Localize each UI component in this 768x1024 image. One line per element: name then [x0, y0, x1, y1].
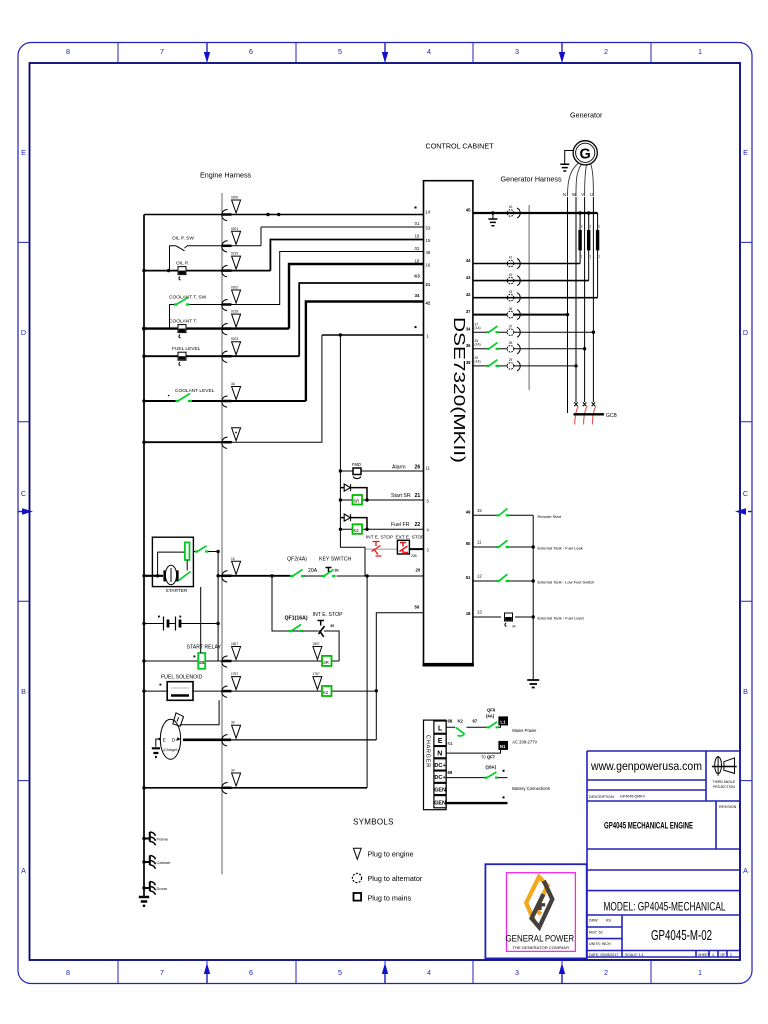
svg-text:CHARGER: CHARGER: [425, 735, 431, 768]
svg-text:15: 15: [426, 238, 431, 243]
generator G: [573, 141, 597, 165]
relay coil START RELAY (green box): [142, 587, 339, 669]
ground bottom of bus: [139, 897, 149, 906]
svg-text:1: 1: [712, 953, 714, 957]
svg-text:V: V: [581, 192, 584, 197]
top band dividers: [118, 43, 651, 63]
svg-text:37: 37: [509, 324, 513, 328]
svg-text:POWER: POWER: [545, 934, 574, 944]
svg-text:GP4045-M-02: GP4045-M-02: [651, 928, 712, 944]
centering arrows sides: [18, 508, 752, 514]
svg-text:Alarm: Alarm: [392, 465, 406, 471]
svg-text:DSE7320(MKII): DSE7320(MKII): [450, 317, 467, 463]
plug to alternator pin43: [507, 276, 520, 286]
svg-text:40: 40: [509, 205, 513, 209]
switch INT E. STOP (red): [365, 542, 397, 557]
wire vertical bus from pin1 wire: [340, 335, 365, 576]
svg-text:THE GENERATOR COMPANY: THE GENERATOR COMPANY: [513, 946, 571, 950]
sender OIL P.: [142, 267, 270, 280]
svg-text:1: 1: [589, 255, 591, 259]
plug to alternator pin44: [507, 259, 520, 269]
svg-text:42: 42: [509, 273, 513, 277]
sender external fuel level: [505, 613, 516, 629]
svg-text:01: 01: [415, 221, 420, 226]
wire QF1 branch: [272, 576, 316, 631]
svg-text:RU: RU: [606, 919, 612, 923]
svg-text:Generator Harness: Generator Harness: [501, 175, 563, 184]
battery: [142, 616, 218, 631]
wire pin 34 to U: [473, 323, 595, 334]
wire pin 18 fuel level: [473, 610, 535, 619]
svg-text:DRW:: DRW:: [589, 919, 598, 923]
svg-text:A: A: [21, 866, 26, 875]
svg-text:External Tank - Fuel Leak: External Tank - Fuel Leak: [538, 546, 583, 551]
switch COOLANT LEVEL (green): [142, 394, 306, 403]
svg-text:7: 7: [160, 968, 164, 977]
wire engine harness boundary line: [221, 193, 223, 874]
relay coil SR on start relay row: [322, 656, 332, 666]
svg-text:28: 28: [509, 341, 513, 345]
wire A row to bus: [144, 787, 367, 789]
svg-text:GEN: GEN: [434, 788, 446, 794]
CT L3: [598, 213, 601, 298]
svg-text:SYMBOLS: SYMBOLS: [353, 818, 394, 827]
svg-text:(4A): (4A): [486, 714, 495, 719]
wire row1 to pin 14: [144, 214, 424, 216]
wire right bus: [532, 515, 534, 679]
charger (engine alternator): [157, 700, 219, 759]
ground pin 45: [488, 211, 497, 226]
svg-text:67: 67: [473, 719, 478, 724]
plug to alternator pin45: [507, 208, 520, 218]
wire pin 37 to N: [473, 314, 568, 316]
wire pin 45: [473, 212, 598, 214]
switch COOLANT T. SW (green): [170, 298, 193, 329]
svg-text:43: 43: [466, 275, 471, 280]
svg-text:42: 42: [426, 301, 431, 306]
svg-text:C: C: [743, 489, 748, 498]
svg-text:42: 42: [466, 292, 471, 297]
plug to engine starter row: [222, 557, 241, 582]
breaker 34 (green): [487, 326, 500, 333]
battery charger box: [424, 720, 447, 810]
wire phase V: [584, 197, 586, 402]
starter box: [152, 537, 193, 586]
svg-text:1: 1: [698, 47, 702, 56]
pin numbers right edge: [466, 208, 471, 617]
diode D1: [340, 484, 367, 500]
wire generator harness boundary line: [528, 205, 530, 390]
svg-text:External Tank - Fuel Level: External Tank - Fuel Level: [538, 616, 584, 621]
plug to engine fuel solenoid row 2: [313, 672, 322, 690]
svg-text:16: 16: [231, 557, 235, 561]
svg-text:B: B: [21, 687, 26, 696]
svg-text:K2: K2: [354, 528, 360, 533]
plug circle labels: [509, 205, 513, 362]
svg-text:19: 19: [415, 234, 420, 239]
wire starter row: [142, 574, 163, 577]
svg-text:30: 30: [231, 769, 235, 773]
svg-text:2: 2: [730, 953, 732, 957]
svg-text:45: 45: [466, 208, 471, 213]
svg-text:20A: 20A: [308, 568, 318, 574]
svg-text:QF6: QF6: [487, 708, 496, 713]
terminal cells: [434, 721, 447, 808]
wire coolant level to pin (riser): [306, 302, 424, 402]
svg-text:COOLANT T.: COOLANT T.: [169, 319, 197, 325]
svg-text:SR: SR: [354, 499, 360, 504]
relay coil SR: [340, 495, 423, 505]
svg-text:Mains Power: Mains Power: [512, 728, 537, 733]
plug to alternator pin34: [507, 327, 520, 337]
svg-text:1807: 1807: [313, 642, 320, 646]
svg-text:4: 4: [427, 47, 431, 56]
svg-text:2N: 2N: [335, 569, 340, 573]
fuse QF2 (green): [290, 570, 322, 577]
relay coil K2 on fuel solenoid row: [322, 686, 332, 696]
wire fuel level to pin (riser): [299, 283, 423, 356]
svg-text:External Tank - Low Fuel Switc: External Tank - Low Fuel Switch: [538, 580, 595, 585]
svg-text:3: 3: [515, 968, 519, 977]
svg-text:2: 2: [589, 225, 591, 229]
svg-text:2: 2: [604, 968, 608, 977]
plug to engine start relay row 2: [313, 642, 322, 660]
svg-text:0203: 0203: [231, 337, 238, 341]
contact K2 mains (green): [456, 719, 478, 737]
wire pin 50 fuel leak: [473, 540, 535, 549]
wire A vertical (key sw junction down): [366, 576, 368, 788]
fuse QF6 (4A) green: [486, 708, 499, 729]
plug to alternator pin38: [507, 361, 520, 371]
svg-text:2: 2: [581, 225, 583, 229]
svg-text:48: 48: [426, 250, 431, 255]
flag on charger: [173, 713, 184, 726]
legend plug to alternator: [352, 873, 422, 883]
svg-text:QF2(4A): QF2(4A): [287, 557, 307, 563]
svg-text:11: 11: [477, 540, 482, 545]
svg-text:34: 34: [466, 327, 471, 332]
svg-text:U: U: [590, 192, 593, 197]
switch fuel leak (green): [497, 540, 510, 548]
pin numbers left edge: [415, 210, 431, 610]
svg-text:(1A): (1A): [475, 343, 481, 347]
svg-text:16: 16: [426, 263, 431, 268]
svg-text:41: 41: [509, 256, 513, 260]
svg-text:59: 59: [415, 605, 420, 610]
switch EXT E. STOP (red, boxed): [397, 540, 423, 558]
svg-text:26: 26: [415, 465, 421, 471]
svg-text:D: D: [743, 328, 748, 337]
svg-text:20: 20: [416, 568, 421, 573]
breaker 36 (green): [487, 343, 500, 350]
svg-text:A: A: [743, 866, 748, 875]
wire pin 44: [473, 263, 580, 265]
svg-text:5: 5: [338, 47, 342, 56]
wire pin 42: [473, 297, 598, 299]
wire DC+ row: [446, 770, 507, 778]
svg-text:36: 36: [466, 343, 471, 348]
breaker 38 (green): [487, 360, 500, 367]
CT L2: [589, 213, 592, 281]
wire coolant t. to pin 16 (riser): [289, 264, 424, 329]
svg-text:GP4045-QMKII: GP4045-QMKII: [620, 795, 645, 799]
svg-text:Fuel FR: Fuel FR: [391, 522, 410, 528]
svg-text:E: E: [163, 737, 166, 742]
svg-text:22: 22: [415, 522, 421, 528]
svg-text:GP4045 MECHANICAL ENGINE: GP4045 MECHANICAL ENGINE: [604, 821, 693, 832]
wire coolant t. sw to pin 48: [192, 252, 424, 305]
switch starter aux (green): [193, 546, 219, 553]
switch OIL P. SW: [170, 246, 188, 271]
svg-text:7: 7: [160, 47, 164, 56]
svg-text:0218: 0218: [231, 310, 238, 314]
svg-text:20B: 20B: [411, 554, 417, 558]
svg-text:1757: 1757: [313, 672, 320, 676]
svg-text:N: N: [563, 192, 566, 197]
legend plug to mains: [354, 893, 412, 903]
right band dividers: [740, 242, 752, 780]
svg-text:K3: K3: [414, 274, 420, 279]
svg-text:Plug to engine: Plug to engine: [368, 850, 414, 859]
svg-text:4: 4: [427, 968, 431, 977]
svg-text:21: 21: [415, 493, 421, 499]
svg-text:13: 13: [477, 610, 482, 615]
svg-text:1: 1: [581, 255, 583, 259]
svg-text:C: C: [21, 489, 26, 498]
svg-text:12: 12: [477, 574, 482, 579]
svg-text:38: 38: [466, 360, 471, 365]
svg-text:Remote Start: Remote Start: [538, 514, 562, 519]
logo GP diamond dark part: [532, 881, 553, 928]
fuse QF1 (green): [289, 625, 319, 632]
svg-text:K2: K2: [323, 690, 329, 695]
svg-text:B: B: [743, 687, 748, 696]
svg-text:11: 11: [426, 466, 431, 471]
svg-text:34: 34: [415, 293, 420, 298]
svg-text:E: E: [743, 148, 748, 157]
svg-text:SS: SS: [199, 660, 205, 665]
svg-text:3: 3: [515, 47, 519, 56]
svg-text:W: W: [572, 192, 576, 197]
svg-text:Plug to mains: Plug to mains: [368, 894, 412, 903]
svg-text:6: 6: [249, 968, 253, 977]
centering arrows bottom: [204, 963, 565, 983]
svg-text:D+: D+: [172, 737, 178, 742]
svg-text:MODEL: GP4045-MECHANICAL: MODEL: GP4045-MECHANICAL: [604, 900, 726, 914]
svg-text:2: 2: [598, 225, 600, 229]
wire mains N row: [446, 741, 500, 753]
svg-text:MGT: 52: MGT: 52: [589, 931, 603, 935]
plug to engine row5: [222, 310, 241, 335]
svg-text:8: 8: [66, 968, 70, 977]
svg-text:(16A): (16A): [486, 765, 497, 770]
svg-text:Start SR: Start SR: [391, 493, 411, 499]
svg-text:SHEET: SHEET: [698, 953, 711, 957]
svg-text:Cabinet: Cabinet: [157, 860, 172, 865]
svg-text:6: 6: [249, 47, 253, 56]
svg-text:EXT E. STOP: EXT E. STOP: [396, 535, 425, 540]
wire pin 36 to V: [473, 339, 586, 350]
svg-text:STARTER: STARTER: [166, 588, 188, 594]
svg-text:34: 34: [512, 625, 516, 629]
motor starter: [165, 565, 178, 584]
switch remote start (green): [497, 509, 510, 517]
svg-text:02: 02: [415, 246, 420, 251]
svg-text:Doors: Doors: [157, 886, 168, 891]
svg-text:PROJECTION: PROJECTION: [713, 785, 735, 789]
wire starter row to key switch: [218, 575, 290, 577]
CT L1: [580, 213, 583, 264]
svg-text:DATE: 09/28/2017: DATE: 09/28/2017: [589, 953, 618, 957]
grounds frame cabinet doors: [142, 832, 171, 895]
wire pin 43: [473, 280, 589, 282]
svg-text:SCALE: 1:1: SCALE: 1:1: [625, 953, 644, 957]
svg-text:GENERAL: GENERAL: [506, 934, 544, 944]
svg-text:DC+: DC+: [434, 775, 446, 781]
svg-text:D: D: [21, 328, 26, 337]
svg-text:L: L: [438, 726, 443, 733]
centering arrows top: [204, 43, 565, 63]
wire starter vertical: [217, 552, 219, 662]
bottom numbers: [66, 968, 702, 977]
svg-text:Engine Harness: Engine Harness: [200, 171, 252, 180]
svg-text:8: 8: [66, 47, 70, 56]
generator leads: [568, 163, 594, 196]
plug to mains N1: [499, 741, 508, 749]
logo box: [485, 864, 586, 958]
svg-text:15: 15: [477, 508, 482, 513]
svg-text:INT E. STOP: INT E. STOP: [313, 612, 344, 618]
wire B to charger row: [230, 739, 376, 741]
wire oil p. to pin 15 (riser): [270, 240, 423, 271]
svg-text:1807: 1807: [231, 642, 238, 646]
switch INT E. STOP (lower): [318, 621, 340, 662]
svg-text:E: E: [21, 148, 26, 157]
wire pin 49 remote start: [473, 508, 533, 515]
wire pin 51 low fuel switch: [473, 574, 535, 583]
svg-text:INT E. STOP: INT E. STOP: [366, 535, 393, 540]
svg-text:GEN: GEN: [434, 800, 446, 806]
svg-text:www.genpowerusa.com: www.genpowerusa.com: [590, 759, 702, 773]
svg-text:49: 49: [466, 510, 471, 515]
svg-text:18: 18: [415, 259, 420, 264]
contact at starter motor (green): [179, 572, 191, 581]
plug to engine start relay row: [222, 642, 241, 667]
svg-text:SR: SR: [323, 660, 329, 665]
plug to alternator pin37: [507, 310, 520, 320]
svg-text:0201: 0201: [231, 227, 238, 231]
switch low fuel (green): [497, 574, 510, 582]
wire pin 38 to W: [473, 356, 578, 368]
svg-text:Battery Connections: Battery Connections: [512, 786, 550, 791]
svg-text:2: 2: [604, 47, 608, 56]
top numbers: [66, 47, 702, 56]
svg-text:E: E: [438, 738, 443, 745]
svg-text:G: G: [580, 146, 591, 162]
wire phase U: [592, 197, 594, 402]
wire labels near DSE: [414, 221, 420, 298]
svg-text:5: 5: [338, 968, 342, 977]
title block grid: [587, 751, 740, 957]
svg-text:N: N: [437, 750, 442, 757]
svg-text:FUEL SOLENOID: FUEL SOLENOID: [161, 675, 203, 681]
svg-text:44: 44: [466, 258, 471, 263]
sender FUEL LEVEL: [142, 352, 299, 365]
plug to engine charger D+ row: [222, 721, 241, 746]
side letters: [21, 148, 748, 875]
svg-text:29: 29: [509, 358, 513, 362]
svg-text:(1A): (1A): [475, 326, 481, 330]
plug to engine row2: [222, 227, 241, 252]
svg-text:START RELAY: START RELAY: [187, 645, 222, 651]
svg-text:53: 53: [426, 226, 431, 231]
logo GP diamond yellow part: [526, 877, 547, 921]
svg-text:K2: K2: [458, 719, 464, 724]
fuse QF7 (16A) green: [485, 765, 499, 779]
svg-text:50: 50: [466, 541, 471, 546]
svg-text:0202: 0202: [231, 286, 238, 290]
plug to engine fuel solenoid row: [222, 672, 241, 697]
svg-text:FMD: FMD: [352, 462, 361, 467]
svg-text:UNITS: INCH: UNITS: INCH: [589, 942, 611, 946]
breaker GCB (red): [574, 402, 618, 424]
phase labels N W V U: [563, 192, 593, 197]
svg-text:N1: N1: [448, 741, 454, 746]
svg-text:51: 51: [466, 575, 471, 580]
wire charger D+ thick: [183, 738, 231, 741]
wire left DC bus: [143, 215, 145, 897]
solenoid FUEL SOLENOID: [142, 682, 376, 701]
schematic main: [200, 142, 562, 875]
svg-text:69: 69: [448, 770, 453, 775]
wire row8 to pin1 riser: [142, 335, 322, 444]
svg-text:N1: N1: [500, 744, 506, 749]
ground right bus: [527, 680, 539, 688]
svg-text:DESCRIPTION:: DESCRIPTION:: [589, 795, 615, 799]
wire pin 1 row: [322, 326, 424, 337]
diode D2: [340, 514, 367, 529]
svg-text:QF1(16A): QF1(16A): [285, 616, 308, 622]
third angle projection symbol: [712, 756, 737, 789]
svg-text:(1A): (1A): [475, 360, 481, 364]
svg-text:36: 36: [509, 307, 513, 311]
plug to alternator pin42: [507, 293, 520, 303]
svg-text:0209: 0209: [231, 196, 238, 200]
svg-text:FUEL LEVEL: FUEL LEVEL: [172, 346, 201, 352]
starter solenoid contact (green rect): [158, 542, 190, 575]
sender COOLANT T.: [142, 325, 289, 338]
svg-text:OIL P.: OIL P.: [176, 261, 189, 267]
legend plug to engine: [353, 848, 413, 859]
svg-text:1757: 1757: [231, 672, 238, 676]
wire GEN row: [446, 796, 507, 803]
wire mains L row: [446, 719, 500, 728]
bottom band dividers: [118, 960, 651, 983]
wire key switch to pin 20: [337, 575, 424, 577]
svg-text:14: 14: [426, 210, 431, 215]
svg-text:KEY SWITCH: KEY SWITCH: [319, 557, 351, 563]
relay FMD: [340, 468, 423, 479]
ground at generator: [560, 151, 573, 172]
plug to alternator pin36: [507, 344, 520, 354]
plug to engine battery row: [222, 769, 241, 794]
svg-text:43: 43: [509, 290, 513, 294]
svg-text:REVISION: REVISION: [719, 805, 737, 809]
svg-text:L1: L1: [500, 719, 506, 724]
wire pin 59: [376, 613, 423, 740]
svg-text:1: 1: [698, 968, 702, 977]
plug to mains L1: [499, 717, 508, 725]
